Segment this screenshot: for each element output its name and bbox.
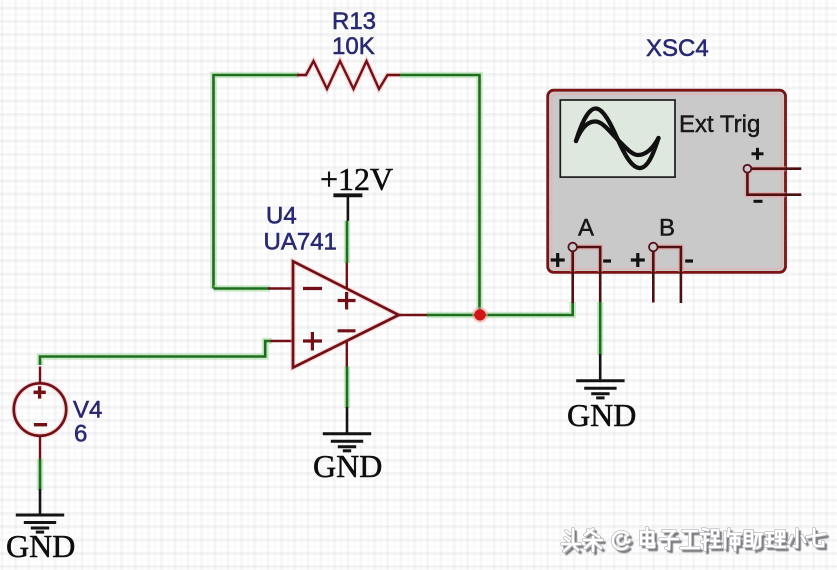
junction output node dot bbox=[472, 307, 488, 323]
oscilloscope channel A minus mark bbox=[603, 259, 611, 262]
source V4 top pin bbox=[39, 367, 41, 384]
oscilloscope channel B minus mark bbox=[685, 259, 693, 262]
oscilloscope XSC4 body bbox=[548, 90, 786, 272]
op-amp U4 output pin bbox=[399, 314, 428, 316]
oscilloscope Ext Trig plus mark bbox=[752, 148, 764, 160]
op-amp U4 inverting input minus mark bbox=[303, 287, 322, 290]
wire scope channel A minus to ground bbox=[597, 302, 604, 355]
wire +12V to op-amp supply bbox=[344, 221, 351, 263]
ground under scope bbox=[576, 354, 624, 398]
op-amp U4 triangle body bbox=[293, 261, 399, 367]
svg-text:6: 6 bbox=[74, 421, 87, 448]
wire V4 bottom to ground bbox=[37, 459, 44, 490]
svg-text:V4: V4 bbox=[73, 397, 102, 424]
wire resistor right to output node bbox=[400, 75, 480, 315]
source V4 bottom pin bbox=[39, 437, 41, 461]
resistor R13 bbox=[297, 61, 400, 89]
svg-text:Ext Trig: Ext Trig bbox=[679, 111, 760, 138]
svg-text:GND: GND bbox=[313, 448, 382, 484]
svg-text:R13: R13 bbox=[332, 8, 376, 35]
ground under V4 bbox=[16, 489, 64, 532]
svg-text:XSC4: XSC4 bbox=[646, 35, 709, 62]
oscilloscope Ext Trig terminal bbox=[744, 165, 802, 195]
oscilloscope Ext Trig minus mark bbox=[754, 200, 763, 203]
op-amp U4 positive supply plus mark bbox=[338, 292, 356, 310]
wire non-inverting input from V4 bbox=[40, 341, 272, 365]
op-amp U4 non-inverting input plus mark bbox=[303, 332, 322, 351]
source V4 circle bbox=[14, 383, 66, 435]
svg-text:B: B bbox=[659, 215, 675, 242]
oscilloscope channel B plus mark bbox=[631, 253, 645, 267]
wire op-amp negative supply to ground bbox=[344, 367, 351, 409]
svg-text:+12V: +12V bbox=[320, 161, 393, 197]
op-amp U4 negative supply minus mark bbox=[338, 329, 356, 332]
svg-text:UA741: UA741 bbox=[264, 229, 337, 256]
ground under op-amp bbox=[323, 407, 371, 451]
oscilloscope screen with sine waves bbox=[560, 100, 675, 177]
svg-text:A: A bbox=[578, 215, 594, 242]
power +12V symbol bbox=[333, 195, 362, 221]
op-amp U4 non-inverting input pin bbox=[271, 340, 294, 342]
wire op-amp output to scope channel A bbox=[427, 302, 573, 315]
svg-text:10K: 10K bbox=[332, 33, 375, 60]
wire inverting input bbox=[214, 285, 271, 292]
wire feedback top from node to resistor left bbox=[214, 75, 300, 289]
op-amp U4 negative supply pin bbox=[346, 341, 348, 368]
oscilloscope channel B terminal and pins bbox=[649, 243, 681, 303]
svg-text:GND: GND bbox=[567, 397, 636, 433]
op-amp U4 positive supply pin bbox=[346, 262, 348, 290]
op-amp U4 inverting input pin bbox=[268, 287, 293, 289]
svg-text:GND: GND bbox=[6, 528, 75, 564]
oscilloscope channel A terminal and pins bbox=[568, 243, 600, 303]
oscilloscope channel A plus mark bbox=[551, 253, 565, 267]
svg-text:U4: U4 bbox=[266, 203, 297, 230]
